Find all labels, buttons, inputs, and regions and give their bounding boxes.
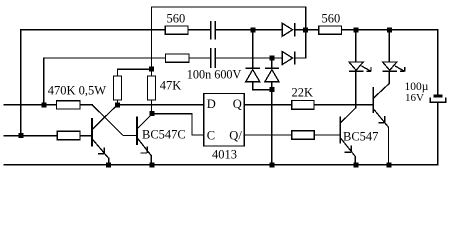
diode Z2 (265, 68, 279, 81)
resistor R2 (166, 54, 190, 62)
wire 22K to Q4 base (314, 104, 373, 106)
node junction ground / Q1 emitter (106, 162, 111, 167)
wire row2 R2-to-C2 (189, 57, 210, 59)
wire Q1 emitter vertical (108, 158, 110, 165)
wire input mid (to 470K) (4, 104, 57, 106)
svg-text:560: 560 (167, 11, 186, 25)
node junction ground / zener branch (269, 162, 274, 167)
node junction 47K top (149, 67, 154, 72)
resistor R5 (292, 131, 315, 139)
node junction ground / Q3 emitter (354, 162, 359, 167)
transistor Q2 BC547C (92, 105, 152, 156)
wire top rail D1-to-R3 (295, 29, 319, 31)
svg-text:4013: 4013 (212, 147, 237, 161)
svg-text:560: 560 (322, 11, 341, 25)
svg-text:C: C (207, 129, 215, 143)
svg-text:BC547: BC547 (343, 129, 378, 143)
wire 470K-to-base-diagonal-start (80, 104, 92, 106)
resistor 560 R3 (319, 26, 342, 34)
wire row2 left (44, 57, 166, 59)
node junction ground / Q4 emitter (387, 162, 392, 167)
node junction top rail / D1 cathode (303, 27, 308, 32)
svg-text:16V: 16V (405, 92, 424, 104)
node junction top rail / C1-zener branch (250, 27, 255, 32)
resistor R4 vertical (114, 76, 122, 100)
wire D-input row (117, 104, 203, 106)
svg-text:22K: 22K (292, 85, 314, 99)
wire Q/ output to R5 (244, 134, 292, 136)
wire LED1 cathode vertical (355, 71, 357, 108)
node junction input / row2 branch (41, 102, 46, 107)
node junction top rail / LED1 anode (353, 27, 358, 32)
resistor 560 R1 (165, 26, 188, 34)
svg-text:D: D (207, 97, 216, 111)
node junction Q2 collector / 47K bottom (149, 111, 154, 116)
wire row2 D2-to-corner (295, 57, 306, 59)
wire zener2 top stub (271, 58, 273, 68)
capacitor C1 100n 600V (210, 21, 216, 40)
node junction ground / Q2 emitter (150, 162, 155, 167)
wire vertical x44 (43, 58, 45, 105)
wire left-resistor top drop (117, 69, 119, 76)
wire collector-node to C route horizontal (152, 113, 193, 115)
svg-text:470K 0,5W: 470K 0,5W (48, 84, 107, 98)
wire zener1 top vertical (252, 30, 254, 69)
node junction zener bottoms (269, 87, 274, 92)
LED D3 (349, 62, 371, 71)
wire left-resistor bottom (117, 100, 119, 105)
wire C route to pin (192, 134, 204, 136)
wire top box right vertical (305, 7, 307, 58)
wire Q output to 22K (244, 104, 292, 106)
transistor Q4 (373, 83, 389, 127)
svg-text:Q/: Q/ (229, 129, 242, 143)
transistor Q3 BC547 (340, 108, 355, 156)
LED D4 (383, 62, 405, 71)
resistor 47K vertical (148, 76, 156, 100)
wire Q2 emitter vertical (150, 156, 152, 165)
wire zener2 bottom vertical to ground (271, 82, 273, 165)
wire top rail R1-to-C1 (188, 29, 210, 31)
svg-text:BC547C: BC547C (142, 128, 186, 142)
transistor Q1 (92, 105, 117, 158)
resistor 22K (292, 101, 314, 110)
wire row2 C2-to-D2 (216, 57, 282, 59)
node junction lower input / left vertical (18, 133, 23, 138)
wire LED1 anode vertical (355, 30, 357, 62)
wire Q3 emitter vertical (354, 157, 356, 165)
resistor on lower input wire (57, 131, 80, 139)
wire R5 to Q3 base (314, 134, 340, 136)
wire 47K bottom (151, 100, 153, 114)
wire C route vertical (191, 114, 193, 135)
wire bottom ground rail (4, 164, 438, 166)
wire LED2 anode vertical (388, 30, 390, 62)
svg-text:Q: Q (233, 97, 242, 111)
diode Z1 (246, 68, 260, 81)
capacitor C3 100u electrolytic (430, 94, 446, 102)
diode D1 (282, 23, 295, 36)
capacitor C2 (210, 48, 216, 68)
wire right edge lower (437, 102, 439, 164)
wire input lower (4, 135, 57, 137)
wire top rail C1-to-D1 (216, 29, 282, 31)
resistor 470K 0,5W (57, 101, 81, 109)
svg-text:47K: 47K (160, 79, 182, 93)
wire left corner vertical (20, 30, 22, 136)
wire top box horizontal (152, 6, 306, 8)
node junction D row / R4 / Q1 collector (115, 102, 120, 107)
diode D2 (282, 52, 295, 65)
wire top box left vertical (151, 7, 153, 76)
wire right edge upper (437, 30, 439, 95)
IC U1 4013 flip-flop body (204, 94, 245, 147)
node junction row2 / zener2 top (269, 56, 274, 61)
wire node47K horizontal (118, 68, 152, 70)
wire top rail R3-to-right-corner (342, 29, 438, 31)
wire zener1 bottom (253, 82, 272, 90)
wire top rail left segment (21, 29, 165, 31)
wire resistor-to-Q1-base (80, 135, 92, 137)
wire LED2 cathode vertical (388, 71, 390, 83)
node junction top rail / LED2 anode (387, 27, 392, 32)
svg-text:100n 600V: 100n 600V (187, 68, 242, 82)
wire Q4 emitter vertical (388, 127, 390, 165)
